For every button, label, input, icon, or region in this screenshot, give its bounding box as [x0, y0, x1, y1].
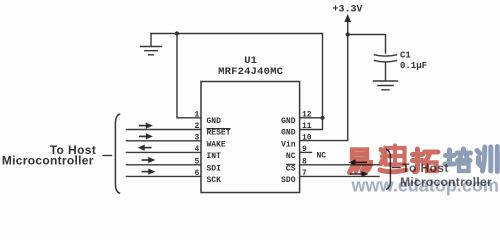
wire SDI row	[127, 164, 202, 166]
svg-text:6: 6	[194, 169, 199, 178]
wire SDO row	[300, 175, 379, 177]
arrow SCK	[142, 169, 156, 175]
arrow SDO (out)	[350, 171, 369, 177]
svg-text:SCK: SCK	[207, 176, 222, 185]
arrow SDI	[142, 157, 156, 163]
svg-text:GND: GND	[207, 117, 222, 126]
arrow INT (out)	[138, 145, 152, 151]
svg-text:4: 4	[194, 145, 199, 154]
capacitor C1	[375, 55, 397, 62]
svg-text:0.1µF: 0.1µF	[400, 61, 427, 71]
svg-text:WAKE: WAKE	[207, 141, 226, 150]
svg-text:3: 3	[194, 133, 199, 142]
char 迪	[380, 146, 406, 172]
wire WAKE row	[127, 140, 202, 142]
svg-text:C1: C1	[400, 51, 411, 61]
IC U1 box	[201, 82, 300, 193]
svg-text:8: 8	[302, 157, 307, 166]
dash right text	[393, 167, 401, 169]
svg-text:GND: GND	[281, 117, 296, 126]
dash left text	[103, 155, 112, 157]
svg-text:INT: INT	[207, 152, 222, 161]
svg-text:MRF24J40MC: MRF24J40MC	[218, 66, 284, 78]
char 训	[477, 147, 497, 172]
svg-text:www.edatop.com: www.edatop.com	[351, 175, 499, 195]
svg-text:5: 5	[194, 157, 199, 166]
svg-text:2: 2	[194, 122, 199, 131]
svg-text:12: 12	[302, 110, 312, 119]
svg-text:1: 1	[194, 110, 199, 119]
svg-text:CS: CS	[286, 164, 296, 173]
wire branch to C1	[348, 35, 386, 54]
svg-text:10: 10	[302, 133, 312, 142]
svg-text:9: 9	[302, 145, 307, 154]
wire pin 12 stub	[300, 117, 323, 119]
wire CS row	[300, 164, 379, 166]
wire top rail from ground to pin12/11 drop	[151, 34, 323, 118]
brace right	[387, 150, 391, 190]
wire Vin drop to pin 10	[300, 35, 348, 141]
ground (C1)	[374, 81, 398, 90]
arrow WAKE	[139, 133, 153, 139]
arrow CS (in)	[349, 159, 368, 165]
wire pin 1 drop	[177, 34, 201, 118]
svg-text:NC: NC	[317, 151, 327, 160]
junction dot (+3.3V branch)	[346, 32, 350, 36]
junction dot (top rail to pin 1)	[175, 31, 179, 35]
svg-text:SDI: SDI	[207, 164, 222, 173]
brace left	[115, 114, 119, 193]
char 培	[445, 149, 471, 171]
svg-text:NC: NC	[286, 152, 296, 161]
svg-text:SDO: SDO	[281, 176, 296, 185]
svg-text:7: 7	[302, 169, 307, 178]
svg-text:RESET: RESET	[207, 129, 231, 138]
arrow RESET	[139, 123, 153, 129]
watermark 易迪拓培训	[350, 146, 498, 174]
wire INT row	[127, 151, 202, 153]
wire C1 to ground	[385, 62, 387, 81]
wire NC pin 9 stub	[300, 151, 312, 153]
junction dot (pin 12 tie)	[320, 116, 324, 120]
wire SCK row	[127, 175, 202, 177]
svg-text:Vin: Vin	[281, 141, 296, 150]
svg-text:Microcontroller: Microcontroller	[2, 154, 94, 168]
svg-text:+3.3V: +3.3V	[332, 5, 362, 16]
svg-text:GND: GND	[281, 129, 296, 138]
power +3.3V	[347, 17, 349, 35]
ground	[150, 34, 152, 47]
wire pin 11 stub	[300, 118, 323, 130]
char 拓	[413, 149, 439, 172]
wire RESET row	[127, 129, 202, 131]
char 易	[350, 150, 371, 174]
svg-text:11: 11	[302, 122, 312, 131]
